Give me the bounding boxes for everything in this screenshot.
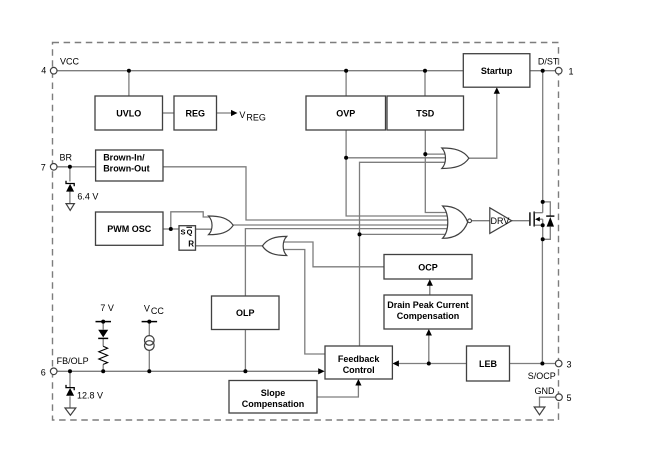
block UVLO [95,96,163,130]
wire OVP drop [345,71,347,96]
wire PWM OSC out to latch S [163,228,179,230]
pin 5 GND [556,394,563,401]
arrow into Feedback Control bottom from Slope [355,379,361,386]
svg-text:Q: Q [187,228,193,237]
svg-text:PWM OSC: PWM OSC [107,224,151,234]
svg-text:12.8 V: 12.8 V [77,390,103,400]
nor-gate main [443,206,468,238]
wire LEB node up to Drain Peak arrow [428,333,430,364]
zener diode 12.8V [66,385,74,390]
svg-text:Brown-In/: Brown-In/ [103,153,145,163]
svg-text:UVLO: UVLO [116,108,141,118]
svg-text:OCP: OCP [418,262,438,272]
svg-text:TSD: TSD [416,108,435,118]
svg-text:REG: REG [186,108,206,118]
junction FB / resistor [101,369,105,373]
svg-text:6.4 V: 6.4 V [77,192,98,202]
block Startup [463,54,530,87]
wire FB/OLP pin6 to Feedback Control arrow [57,370,321,372]
wire Brown-Out to NOR input 3 [163,167,450,220]
arrow into Feedback Control right from LEB [392,360,399,366]
svg-text:S/OCP: S/OCP [528,371,556,381]
wire REG to VREG arrow [217,112,234,114]
svg-text:Compensation: Compensation [397,311,460,321]
block PWM OSC [96,212,164,245]
7V supply bar [96,321,112,323]
junction BR / zener [68,165,72,169]
wire 12.8V zener branch [69,371,71,387]
wire Feedback Control to OR2 input 2 [281,250,326,355]
wire 6.4V zener branch [69,167,71,182]
junction PWM OSC output [169,227,173,231]
wire NOR out to DRV [471,220,489,222]
wire source rail [541,239,543,363]
MOSFET body stub with arrow [537,218,543,220]
junction drain / body diode [541,200,545,204]
MOSFET internal rail [542,202,544,213]
svg-text:CC: CC [151,306,164,316]
junction VCC rail / TSD [423,69,427,73]
wire drain rail [542,71,544,202]
node VCC supply [147,320,151,324]
svg-text:Slope: Slope [261,388,286,398]
block TSD [387,96,464,130]
wire feedback vertical to OR3 and NOR input 6 [360,162,448,346]
block OCP [384,255,472,280]
ground below 6.4V zener [66,204,74,211]
wire GND pin5 to ground [540,397,556,407]
MOSFET source stub [535,224,543,226]
latch SR [179,226,196,251]
svg-text:1: 1 [569,67,574,77]
svg-text:GND: GND [535,386,556,396]
junction VCC rail / OVP [344,69,348,73]
or-gate OR2 mirrored ocp/fb [262,236,286,255]
svg-text:R: R [188,240,194,249]
wire OLP top to NOR input 5 [245,229,450,296]
wire OR3 out to Startup arrow [469,91,497,159]
block Slope Compensation [229,381,317,414]
svg-text:5: 5 [567,393,572,403]
MOSFET channel bar [533,212,535,227]
node 7V supply [101,320,105,324]
svg-text:Feedback: Feedback [338,354,381,364]
svg-text:Drain Peak Current: Drain Peak Current [387,300,469,310]
svg-text:7: 7 [41,163,46,173]
wire Slope Compensation to Feedback Control [317,383,358,398]
VCC supply bar [142,321,158,323]
or-gate OR3 startup [442,148,469,169]
svg-text:S: S [181,228,186,237]
arrow into OCP bottom [427,279,433,286]
wire UVLO drop [128,71,130,96]
svg-text:4: 4 [41,65,46,75]
junction source / body diode [541,237,545,241]
wire LEB to Feedback Control [396,363,467,365]
ground below 12.8V zener [65,408,76,415]
svg-text:Compensation: Compensation [242,399,305,409]
arrow into Startup bottom [494,87,500,94]
junction VCC rail / UVLO [127,69,131,73]
svg-text:6: 6 [41,367,46,377]
wire TSD drop [424,71,426,96]
block OLP [212,296,280,330]
junction LEB line / compensation [427,362,431,366]
current source VCC [145,336,155,346]
diode 7V branch [98,330,108,338]
wire BR pin7 to Brown box [57,166,96,168]
junction FB / 12.8V zener [68,369,72,373]
wire UVLO to REG [163,112,175,114]
wire TSD out to OR3 and NOR input 1 [425,130,450,213]
pin 6 FB/OLP [50,368,57,375]
wire DRV to MOSFET gate [512,220,530,222]
pin 3 S/OCP [555,360,562,367]
wire PWM OSC to OR1 top input [171,212,213,229]
zener diode 6.4V [66,181,74,186]
wire LEB to pin3 [510,363,556,365]
junction OVP branch [344,156,348,160]
svg-text:Brown-Out: Brown-Out [103,164,150,174]
or-gate OR1 pwm [209,216,234,235]
svg-text:3: 3 [567,359,572,369]
block LEB [467,346,510,381]
block Feedback Control [325,346,392,379]
arrow into Feedback Control left [318,368,325,374]
block OVP [306,96,386,130]
wire OR1 out to NOR input 4 [233,224,450,226]
wire OCP out to OR2 input 1 [281,242,385,267]
buffer DRV [490,208,512,234]
svg-text:OLP: OLP [236,308,255,318]
ground at GND pin5 [534,407,545,415]
wire 7V branch diode resistor [102,322,104,330]
junction source stub [541,223,545,227]
arrow VREG [231,110,238,116]
body diode branch [543,202,551,216]
block REG [174,96,217,130]
svg-text:OVP: OVP [336,108,355,118]
svg-text:DRV: DRV [491,216,510,226]
IC dashed border [53,43,559,421]
wire OR2 out to latch R [196,245,263,247]
transistor MOSFET gate bar [529,212,531,226]
svg-text:REG: REG [246,113,266,123]
MOSFET drain stub [535,212,543,214]
pin 7 BR [50,164,57,171]
wire OVP out to OR3 and NOR input 2 [346,130,450,216]
junction feedback branch [358,232,362,236]
arrow into Drain Peak bottom [426,329,432,336]
resistor [99,346,108,364]
svg-text:VCC: VCC [60,57,80,67]
pin 1 D/ST [555,67,562,74]
wire VCC rail pin4 to Startup [57,70,463,72]
wire Drain Peak to OCP arrow [429,283,431,295]
block Brown-In/Brown-Out [96,150,163,181]
junction FB / current source [147,369,151,373]
svg-text:V: V [144,304,150,314]
svg-text:LEB: LEB [479,359,498,369]
svg-text:BR: BR [60,153,73,163]
junction TSD branch [423,152,427,156]
junction S/OCP / source rail [540,362,544,366]
svg-text:FB/OLP: FB/OLP [57,356,89,366]
wire latch Q to OR1 bottom input [196,228,215,230]
svg-text:Control: Control [343,365,375,375]
svg-text:7 V: 7 V [100,303,114,313]
wire D/ST from Startup to pin1 [530,70,556,72]
junction D/ST / drain rail [541,69,545,73]
block Drain Peak Current Compensation [384,295,472,329]
wire OLP bottom to FB node [244,330,246,372]
svg-text:V: V [239,110,245,120]
pin 4 VCC [50,67,57,74]
junction FB / OLP [243,369,247,373]
svg-text:Startup: Startup [481,66,513,76]
svg-text:D/ST: D/ST [538,57,559,67]
wire VCC current source branch [148,322,150,336]
